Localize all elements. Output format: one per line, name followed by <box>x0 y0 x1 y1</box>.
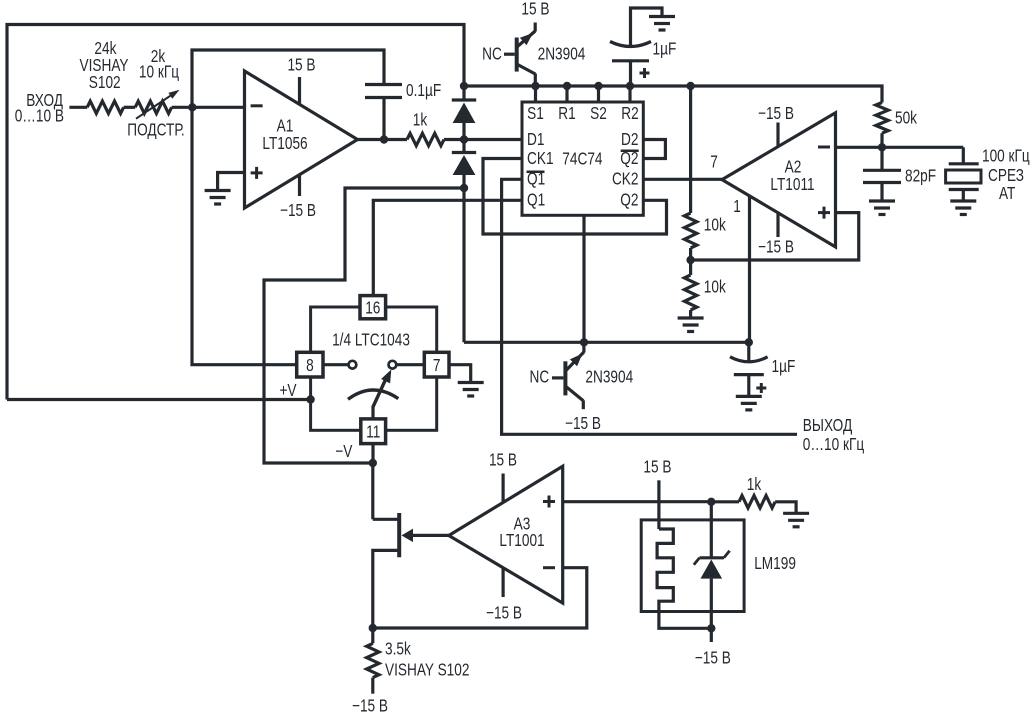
capacitor 0.1uF feedback <box>365 83 402 86</box>
diode D-upper <box>462 86 465 100</box>
svg-text:2N3904: 2N3904 <box>538 45 586 64</box>
svg-text:74C74: 74C74 <box>562 150 602 169</box>
ground pin 7 <box>458 381 484 384</box>
node S2 rail <box>594 82 602 90</box>
svg-text:1: 1 <box>733 198 741 217</box>
svg-text:50k: 50k <box>895 109 917 128</box>
svg-text:LT1056: LT1056 <box>262 135 308 154</box>
wire 10k chain top <box>689 86 692 213</box>
trimmer 2k 10kHz <box>135 101 171 113</box>
svg-text:СРЕЗ: СРЕЗ <box>988 167 1024 186</box>
transistor JFET <box>397 513 401 557</box>
svg-text:LM199: LM199 <box>754 555 796 574</box>
switch contact right <box>397 363 425 366</box>
svg-text:−15 В: −15 В <box>565 414 601 433</box>
wire Q1 to LTC1043 pin16 <box>373 200 522 295</box>
svg-text:1/4 LTC1043: 1/4 LTC1043 <box>332 331 410 350</box>
svg-text:15 В: 15 В <box>643 458 671 477</box>
wire CK2 to A2 output <box>643 178 722 181</box>
heater LM199 <box>657 529 711 628</box>
resistor 1k <box>407 133 444 145</box>
wire diode node to -V loop <box>264 188 464 463</box>
label A1 -15V supply <box>298 174 301 196</box>
diode D-lower <box>462 140 465 153</box>
svg-text:D1: D1 <box>527 130 544 149</box>
wire A2 pin1 to rail <box>748 196 751 342</box>
ground A1 noninverting input <box>218 173 245 191</box>
wire top border feedback loop (+V frame) <box>7 25 464 400</box>
capacitor 82pF <box>880 147 883 170</box>
pin 7 box <box>424 352 449 377</box>
node LM199 bottom junction <box>707 624 715 632</box>
svg-text:10k: 10k <box>704 278 726 297</box>
op-amp A3 LT1001 <box>449 466 563 603</box>
node +V junction <box>306 395 314 403</box>
svg-text:11: 11 <box>366 423 380 442</box>
wire A3 noninverting <box>563 500 712 503</box>
svg-text:A2: A2 <box>785 158 802 177</box>
resistor 24k VISHAY S102 <box>87 101 123 113</box>
resistor 50k <box>876 103 888 134</box>
resistor 1k output <box>711 500 739 503</box>
node A2 inverting junction <box>878 143 886 151</box>
svg-text:0…10 В: 0…10 В <box>15 107 64 126</box>
svg-text:АТ: АТ <box>999 185 1016 204</box>
svg-text:Q1: Q1 <box>527 191 545 210</box>
zener diode LM199 <box>700 556 724 559</box>
svg-text:ПОДСТР.: ПОДСТР. <box>127 121 184 140</box>
pin 11 box <box>361 419 386 444</box>
node A1 inverting junction <box>188 103 196 111</box>
wire between 10k <box>689 248 692 275</box>
svg-text:ВЫХОД: ВЫХОД <box>803 417 853 436</box>
wire set-reset top rail <box>464 86 882 103</box>
svg-text:3.5k: 3.5k <box>385 640 411 659</box>
wire bottom rail <box>464 341 749 344</box>
resistor 10k upper <box>684 213 696 248</box>
svg-text:S2: S2 <box>590 105 607 124</box>
resistor 3.5k VISHAY S102 <box>367 643 379 677</box>
node R1 rail <box>563 82 571 90</box>
svg-text:D2: D2 <box>621 130 638 149</box>
svg-text:82pF: 82pF <box>905 167 936 186</box>
wire feedback up-over <box>192 50 384 107</box>
node -V junction <box>369 459 377 467</box>
wire input lead <box>69 106 87 109</box>
op-amp A2 LT1011 <box>722 113 836 247</box>
wire D2 to Q2bar <box>643 140 665 159</box>
wire 1k to diode node <box>444 138 464 141</box>
label A2 top supply <box>776 123 779 147</box>
svg-text:15 В: 15 В <box>521 0 549 19</box>
svg-text:0.1µF: 0.1µF <box>406 82 441 101</box>
svg-text:10 кГц: 10 кГц <box>139 63 179 82</box>
wire CK1 to Q2 <box>483 159 667 235</box>
svg-text:7: 7 <box>710 153 718 172</box>
pin 16 box <box>360 296 386 319</box>
svg-text:−15 В: −15 В <box>486 604 522 623</box>
node R2 rail <box>626 82 634 90</box>
svg-text:1k: 1k <box>413 111 428 130</box>
svg-text:NC: NC <box>482 45 502 64</box>
svg-text:Q2: Q2 <box>620 149 638 168</box>
svg-text:−15 В: −15 В <box>758 105 794 124</box>
wire A1 output <box>358 138 408 141</box>
svg-text:NC: NC <box>529 368 549 387</box>
ground 82pF <box>869 199 895 202</box>
svg-text:−15 В: −15 В <box>352 697 388 716</box>
node 10k tap rail <box>686 82 694 90</box>
pin 8 box <box>297 352 323 377</box>
resistor 10k lower <box>684 275 696 310</box>
svg-text:100 кГц: 100 кГц <box>982 147 1030 166</box>
wire inverting node down to LTC1043 pin 8 <box>192 107 297 364</box>
svg-text:15 В: 15 В <box>287 56 315 75</box>
svg-text:+V: +V <box>279 382 297 401</box>
wire pin11 down <box>371 444 374 463</box>
label A3 top supply <box>502 474 505 503</box>
svg-text:−15 В: −15 В <box>695 649 731 668</box>
node rail cap junction <box>745 338 753 346</box>
ground 1k <box>783 512 809 515</box>
switch U2 1/4 LTC1043 frame <box>311 307 437 430</box>
svg-text:S102: S102 <box>89 74 121 93</box>
reference U3 LM199 box <box>641 520 744 612</box>
svg-text:7: 7 <box>433 357 441 376</box>
pin stubs S1 R1 S2 R2 <box>534 86 537 102</box>
wire Q1bar to output <box>502 179 797 434</box>
svg-text:S1: S1 <box>527 105 544 124</box>
switch arm <box>371 407 374 419</box>
ground 10k divider <box>678 316 704 319</box>
ground C-1uF top <box>649 15 675 18</box>
svg-text:LT1011: LT1011 <box>770 176 814 195</box>
svg-text:A1: A1 <box>277 117 294 136</box>
svg-text:1µF: 1µF <box>653 40 677 59</box>
svg-text:10k: 10k <box>704 216 726 235</box>
wire 74C74 ground pin <box>582 215 585 342</box>
node 10k junction <box>686 256 694 264</box>
capacitor C-1uF top <box>629 61 632 86</box>
label A2 bottom supply <box>776 213 779 237</box>
node diode top rail junction <box>460 82 468 90</box>
label A1 +15V supply <box>298 77 301 105</box>
label A3 bottom supply <box>502 568 505 597</box>
node 3.5k junction <box>369 624 377 632</box>
svg-text:1µF: 1µF <box>772 358 796 377</box>
svg-text:R2: R2 <box>621 105 638 124</box>
svg-text:0…10 кГц: 0…10 кГц <box>803 436 864 455</box>
capacitor C-1uF lower <box>730 357 768 362</box>
wire diode node down to bottom rail <box>462 188 465 342</box>
svg-text:CK1: CK1 <box>527 149 554 168</box>
wire A2 plus wrap <box>691 213 859 260</box>
wire trimmer to A1 inverting input <box>172 106 245 109</box>
transistor Q1 2N3904 <box>515 38 519 72</box>
svg-text:−15 В: −15 В <box>758 238 794 257</box>
wire A3 inverting feedback <box>373 568 587 628</box>
wire A2 inverting input <box>836 146 964 149</box>
ground C-1uF lower <box>736 395 762 398</box>
wire 15V into LM199 <box>657 480 660 529</box>
node A1 output junction <box>380 135 388 143</box>
node 1k junction <box>707 498 715 506</box>
wire 50k to node <box>880 133 883 147</box>
svg-text:16: 16 <box>365 299 380 318</box>
wire LM199 to -15V <box>710 628 713 642</box>
svg-text:2N3904: 2N3904 <box>585 368 633 387</box>
transistor Q2 2N3904 <box>563 361 567 395</box>
svg-text:−15 В: −15 В <box>280 202 316 221</box>
svg-text:Q2: Q2 <box>620 191 638 210</box>
node S1 rail <box>531 82 539 90</box>
wire cap to A1 output node <box>382 98 385 140</box>
svg-text:R1: R1 <box>558 105 575 124</box>
svg-text:LT1001: LT1001 <box>499 532 544 551</box>
svg-text:CK2: CK2 <box>612 170 639 189</box>
wire D1 <box>464 138 522 141</box>
svg-text:8: 8 <box>306 357 314 376</box>
wire 24k to trimmer <box>124 106 136 109</box>
flip-flop U1 74C74 box <box>522 102 643 215</box>
crystal 100kHz AT-cut <box>962 147 965 164</box>
svg-text:−V: −V <box>335 443 353 462</box>
wire zener top <box>710 502 713 558</box>
node 74C74 gnd rail <box>580 338 588 346</box>
wire 10k to ground <box>689 310 692 318</box>
node D1 junction <box>460 135 468 143</box>
node lower diode junction <box>460 184 468 192</box>
ground crystal <box>950 199 976 202</box>
svg-text:VISHAY S102: VISHAY S102 <box>385 661 469 680</box>
wire -V to JFET source <box>371 463 374 519</box>
op-amp A1 LT1056 <box>245 71 358 208</box>
wire pin7 to ground <box>449 365 471 383</box>
switch contact left <box>323 363 348 366</box>
svg-text:1k: 1k <box>747 476 762 495</box>
svg-text:15 В: 15 В <box>489 451 517 470</box>
